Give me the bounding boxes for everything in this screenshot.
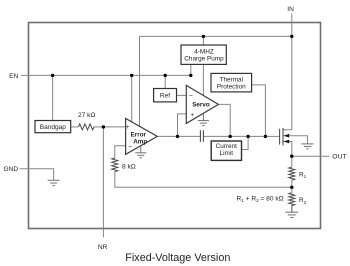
ground FET body: [302, 144, 314, 149]
op-amp error amp: [126, 118, 158, 154]
wire IN drop to FET drain: [283, 36, 292, 129]
svg-text:Protection: Protection: [217, 83, 246, 90]
wire bandgap to 27k: [71, 126, 78, 128]
svg-text:Fixed-Voltage Version: Fixed-Voltage Version: [125, 252, 230, 264]
transistor FET source arrow: [284, 140, 290, 144]
wire charge pump top stub: [202, 36, 204, 45]
wire servo output: [218, 104, 230, 136]
transistor pass FET: [280, 128, 283, 145]
resistor 27k: [78, 124, 94, 130]
transistor FET body arrow: [284, 134, 290, 138]
wire error amp minus: [115, 146, 126, 158]
svg-text:Limit: Limit: [220, 150, 234, 157]
wire top rail from IN: [140, 35, 292, 37]
svg-text:NR: NR: [98, 244, 108, 251]
svg-text:+: +: [126, 124, 130, 131]
resistor R2: [289, 193, 295, 206]
node EN ref junction: [164, 74, 167, 77]
wire cap to gate node: [203, 135, 279, 137]
capacitor series: [200, 130, 203, 142]
node servo feedback junction: [176, 135, 179, 138]
box ref: [154, 89, 177, 102]
ground error amp: [135, 147, 146, 158]
pin NR lead from plus node: [102, 127, 104, 237]
pin EN lead and enable rail: [21, 74, 191, 76]
node servo output junction: [229, 135, 232, 138]
svg-text:Bandgap: Bandgap: [40, 124, 66, 131]
box charge pump U2: [181, 45, 226, 64]
svg-text:Ref: Ref: [160, 93, 170, 100]
wire error amp output to cap: [157, 135, 200, 137]
svg-text:Charge Pump: Charge Pump: [184, 56, 224, 63]
node charge pump rail junction: [202, 35, 205, 38]
node divider tap junction: [290, 186, 293, 189]
svg-text:GND: GND: [4, 166, 19, 173]
wire rail drop to error amp supply: [139, 36, 141, 126]
wire thermal protection to gate node: [252, 85, 265, 136]
ground GND pin: [48, 180, 60, 185]
svg-text:−: −: [189, 93, 193, 100]
box bandgap: [35, 121, 71, 133]
ground servo: [198, 114, 209, 126]
pin IN lead: [291, 14, 293, 37]
svg-text:OUT: OUT: [332, 154, 346, 161]
node thermal junction: [264, 135, 267, 138]
resistor 8k: [112, 158, 118, 172]
op-amp servo: [186, 85, 218, 123]
svg-text:R1 + R2 = 80 kΩ: R1 + R2 = 80 kΩ: [237, 196, 284, 204]
node EN error amp junction: [130, 74, 133, 77]
svg-text:Amp: Amp: [133, 139, 147, 146]
wire servo plus feedback drop: [178, 114, 187, 136]
wire charge pump to servo supply: [202, 65, 204, 96]
wire R2 to ground: [291, 205, 293, 212]
wire FET source to OUT node: [283, 142, 292, 157]
wire OUT node down to R1: [291, 156, 293, 167]
node current limit junction: [246, 135, 249, 138]
svg-text:IN: IN: [287, 6, 294, 13]
node IN rail junction: [290, 35, 293, 38]
wire EN drop to ref: [164, 75, 166, 89]
wire FET body to ground: [283, 136, 308, 144]
svg-text:8 kΩ: 8 kΩ: [122, 163, 136, 170]
wire EN drop to bandgap: [52, 75, 54, 120]
wire current limit tap: [242, 136, 249, 149]
chip outline border: [29, 23, 321, 229]
wire 8k bottom to divider tap: [115, 172, 292, 188]
node plus input NR junction: [102, 125, 105, 128]
box thermal protection: [211, 73, 252, 92]
svg-text:4-MHZ: 4-MHZ: [194, 48, 214, 55]
wire EN rise to charge pump: [190, 65, 192, 76]
pin GND lead: [20, 169, 54, 181]
node OUT junction: [290, 155, 293, 158]
pin OUT lead: [292, 155, 330, 157]
svg-text:−: −: [128, 143, 132, 150]
ground output divider: [285, 205, 298, 217]
svg-text:27 kΩ: 27 kΩ: [78, 112, 95, 119]
resistor R1: [289, 167, 295, 180]
node EN charge pump junction: [189, 74, 192, 77]
wire ref to servo minus: [176, 94, 186, 96]
wire 27k to plus input: [94, 126, 126, 128]
svg-text:+: +: [190, 112, 194, 119]
node EN bandgap junction: [51, 74, 54, 77]
svg-text:Error: Error: [131, 132, 147, 139]
svg-text:EN: EN: [9, 73, 18, 80]
svg-text:Servo: Servo: [192, 101, 210, 108]
box current limit: [211, 141, 241, 160]
wire EN drop to error amp: [131, 75, 133, 121]
wire R1 to tap: [291, 180, 293, 193]
